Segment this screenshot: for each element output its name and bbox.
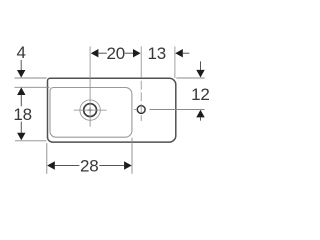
dim 12 arrow up <box>196 110 204 118</box>
svg-text:18: 18 <box>13 105 32 124</box>
left extension line bowl rear <box>15 86 50 88</box>
dim 20 line left <box>98 52 106 54</box>
svg-text:13: 13 <box>148 44 167 63</box>
drain hole inner circle <box>84 104 97 117</box>
right extension line top edge <box>176 77 204 79</box>
dim 20 line right <box>125 52 133 54</box>
dim 20 left arrow <box>91 49 99 57</box>
drain center mark <box>88 109 93 111</box>
dim 18 line upper <box>20 95 22 107</box>
tap hole circle <box>137 106 145 114</box>
dim 28 right arrow <box>124 161 132 169</box>
dim 20 right arrow <box>133 49 141 57</box>
basin inner bowl <box>50 88 132 138</box>
svg-text:20: 20 <box>106 44 125 63</box>
dim 12 arrow up tail <box>200 117 202 121</box>
dim 12 arrow down <box>196 70 204 78</box>
svg-text:12: 12 <box>191 85 210 104</box>
tap hole centerline vertical (dim-20/13 shared extension) <box>140 46 142 78</box>
drain centerline vertical (also dim-20 left extension) <box>89 46 91 126</box>
svg-text:4: 4 <box>16 43 25 62</box>
dim 28 right extension tick <box>131 138 133 174</box>
dim 13 outside arrow <box>175 49 183 57</box>
drain crosshair horizontal <box>74 109 107 111</box>
basin outer rim <box>48 78 176 142</box>
dim 28 left arrow <box>47 161 55 169</box>
dim 13 right extension line <box>174 46 176 78</box>
dim 28 line right <box>99 165 124 167</box>
svg-text:28: 28 <box>80 156 99 175</box>
dim 28 line left <box>55 165 80 167</box>
dim 4 leader <box>20 60 22 71</box>
tap hole crosshair horizontal dash <box>134 109 137 111</box>
left extension line top edge <box>15 77 47 79</box>
dim 18 line lower <box>20 122 22 133</box>
dim 4 arrow down <box>17 70 25 78</box>
dim 18 arrow up <box>17 87 25 95</box>
drain hole outer circle <box>80 100 100 120</box>
dim 28 left extension tick <box>46 143 48 174</box>
left extension line bottom <box>15 140 46 142</box>
dim 18 arrow down <box>17 133 25 141</box>
dim 12 arrow down tail <box>200 61 202 70</box>
right extension line tap centerline <box>150 109 205 111</box>
dim 13 outside arrow tail <box>183 52 190 54</box>
